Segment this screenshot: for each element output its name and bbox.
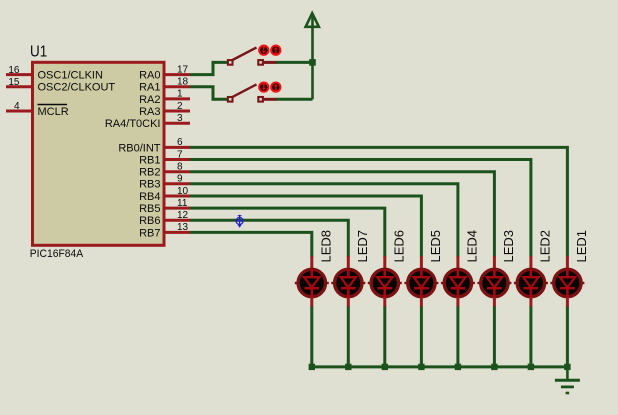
pin 10 (RB4): [139, 186, 190, 203]
LED LED2: [514, 256, 548, 308]
svg-text:RB5: RB5: [139, 203, 160, 215]
wire RB4 to LED5: [190, 196, 421, 257]
svg-text:LED2: LED2: [538, 230, 553, 263]
wire RB5 to LED6: [190, 208, 385, 257]
wire RB3 to LED4: [190, 184, 458, 257]
wire LED1 to ground rail: [566, 307, 569, 367]
svg-text:RB6: RB6: [139, 215, 160, 227]
pin 18 (RA1): [139, 77, 190, 94]
junction LED8/rail: [309, 364, 315, 370]
pin 9 (RB3): [139, 174, 190, 191]
pin 7 (RB1): [139, 149, 190, 166]
wire RB2 to LED3: [190, 172, 494, 257]
svg-text:RB7: RB7: [139, 227, 160, 239]
svg-text:13: 13: [177, 222, 189, 233]
pin 15 (left): [6, 77, 32, 88]
svg-text:RA0: RA0: [139, 70, 160, 82]
ground rail wire: [312, 365, 568, 368]
junction LED4/rail: [455, 364, 461, 370]
junction LED1/rail: [564, 364, 570, 370]
wire RB1 to LED2: [190, 160, 531, 258]
pin 16 (left): [6, 65, 32, 76]
switch SW2 toggle button up: [271, 82, 280, 91]
wire SW1 to power rail: [276, 61, 313, 64]
power terminal arrow: [306, 13, 319, 99]
pin 3 (RA4/T0CKI): [105, 113, 190, 130]
switch SW1 pin wire (red): [264, 61, 277, 64]
pin 12 (RB6): [139, 210, 190, 227]
junction at SW1/power rail: [309, 59, 316, 66]
wire RA0 to switch SW1: [190, 62, 228, 74]
svg-text:17: 17: [177, 64, 189, 75]
svg-text:RB2: RB2: [139, 167, 160, 179]
pin 4 (left): [6, 101, 32, 112]
pin 1 (RA2): [139, 89, 190, 106]
junction LED6/rail: [382, 364, 388, 370]
wire RB6 to LED7: [190, 220, 348, 257]
svg-text:7: 7: [177, 149, 183, 160]
wire LED2 to ground rail: [529, 307, 532, 367]
svg-text:MCLR: MCLR: [38, 106, 69, 118]
pin 13 (RB7): [139, 222, 190, 239]
svg-text:4: 4: [14, 101, 20, 112]
LED LED8: [295, 256, 329, 308]
svg-text:3: 3: [177, 113, 183, 124]
svg-text:18: 18: [177, 77, 189, 88]
svg-text:6: 6: [177, 137, 183, 148]
svg-text:LED6: LED6: [392, 230, 407, 263]
svg-text:2: 2: [177, 101, 183, 112]
switch SW2 pivot contact: [228, 97, 233, 102]
IC U1 body (PIC16F84A microcontroller): [33, 62, 165, 245]
pin 11 (RB5): [139, 198, 190, 215]
wire RB7 to LED8: [190, 232, 312, 257]
svg-text:LED5: LED5: [428, 230, 443, 263]
svg-text:RB1: RB1: [139, 154, 160, 166]
svg-text:LED7: LED7: [355, 230, 370, 263]
svg-text:LED3: LED3: [501, 230, 516, 263]
origin marker (blue) on RB6 wire: [235, 215, 244, 228]
switch SW1 pivot contact: [228, 60, 233, 65]
switch SW2 fixed contact: [258, 97, 263, 102]
switch SW1 fixed contact: [258, 60, 263, 65]
svg-text:RB3: RB3: [139, 179, 160, 191]
pin 17 (RA0): [139, 64, 190, 81]
LED LED5: [404, 256, 438, 308]
junction LED2/rail: [528, 364, 534, 370]
LED LED1: [550, 256, 584, 308]
svg-text:OSC1/CLKIN: OSC1/CLKIN: [38, 70, 103, 82]
LED LED7: [331, 256, 365, 308]
svg-text:16: 16: [8, 65, 20, 76]
junction LED5/rail: [418, 364, 424, 370]
svg-text:RA4/T0CKI: RA4/T0CKI: [105, 118, 161, 130]
ground symbol: [555, 367, 580, 393]
svg-text:RB4: RB4: [139, 191, 160, 203]
svg-text:RB0/INT: RB0/INT: [118, 142, 160, 154]
wire RA1 to switch SW2: [190, 87, 228, 100]
switch SW1 toggle button up: [271, 46, 280, 55]
svg-text:U1: U1: [30, 44, 47, 61]
pin 6 (RB0/INT): [118, 137, 190, 154]
junction LED3/rail: [491, 364, 497, 370]
wire LED6 to ground rail: [383, 307, 386, 367]
switch SW1 arm: [233, 48, 257, 61]
wire LED8 to ground rail: [310, 307, 313, 367]
svg-text:LED1: LED1: [574, 230, 589, 263]
wire RB0 to LED1: [190, 147, 567, 257]
junction LED7/rail: [345, 364, 351, 370]
svg-text:RA3: RA3: [139, 106, 160, 118]
svg-text:8: 8: [177, 162, 183, 173]
LED LED4: [441, 256, 475, 308]
svg-text:10: 10: [177, 186, 189, 197]
wire SW2 to power rail: [276, 98, 313, 101]
svg-text:OSC2/CLKOUT: OSC2/CLKOUT: [38, 82, 116, 94]
LED LED3: [477, 256, 511, 308]
pin 2 (RA3): [139, 101, 190, 118]
switch SW1 toggle button down: [259, 46, 268, 55]
switch SW2 pin wire (red): [264, 98, 277, 101]
wire LED7 to ground rail: [347, 307, 350, 367]
pin 8 (RB2): [139, 162, 190, 179]
pin name MCLR with overline: [38, 105, 69, 118]
svg-text:12: 12: [177, 210, 189, 221]
LED LED6: [368, 256, 402, 308]
svg-text:RA2: RA2: [139, 94, 160, 106]
wire LED3 to ground rail: [493, 307, 496, 367]
svg-text:15: 15: [8, 77, 20, 88]
svg-text:LED4: LED4: [465, 230, 480, 263]
svg-text:RA1: RA1: [139, 82, 160, 94]
wire LED4 to ground rail: [456, 307, 459, 367]
switch SW2 arm: [233, 84, 257, 97]
svg-text:11: 11: [177, 198, 188, 209]
svg-text:PIC16F84A: PIC16F84A: [30, 248, 84, 260]
svg-text:LED8: LED8: [319, 230, 334, 263]
svg-text:9: 9: [177, 174, 183, 185]
wire LED5 to ground rail: [420, 307, 423, 367]
switch SW2 toggle button down: [259, 82, 268, 91]
svg-text:1: 1: [177, 89, 183, 100]
